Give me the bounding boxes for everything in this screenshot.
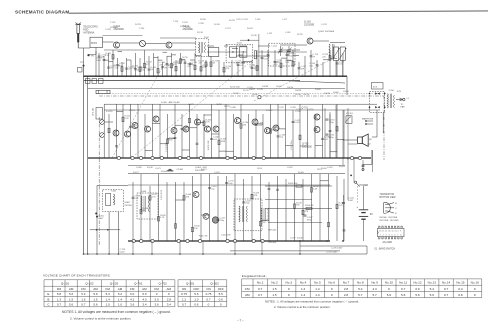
wire: segment y229.8 <box>90 229 120 231</box>
svg-text:4.7K: 4.7K <box>339 205 344 207</box>
junction dot on rail 3 <box>342 240 344 242</box>
svg-text:SCHEMATIC DIAGRAM: SCHEMATIC DIAGRAM <box>15 10 69 15</box>
svg-text:BOTTOM VIEW: BOTTOM VIEW <box>380 197 397 199</box>
telescopic rod antenna <box>75 23 81 48</box>
transistor IF/AF stage (237.5,120.5) <box>235 118 241 124</box>
svg-text:5.8: 5.8 <box>57 292 62 296</box>
svg-text:C-671: C-671 <box>155 168 162 170</box>
svg-text:3.6: 3.6 <box>130 303 135 307</box>
svg-text:SUB.T: SUB.T <box>125 202 132 204</box>
speaker feed wires <box>343 139 358 141</box>
via x=152.5 rail y158 <box>151 156 154 159</box>
wire: vertical rail x87.7 <box>87 76 89 254</box>
core line2 L-103 <box>333 44 335 58</box>
svg-text:1.4: 1.4 <box>118 297 123 301</box>
T-102 core2 <box>201 42 203 53</box>
capacitor <box>326 119 329 120</box>
wire contact to right <box>362 164 372 166</box>
svg-text:R-121: R-121 <box>110 27 117 29</box>
svg-text:0.0128: 0.0128 <box>106 111 113 113</box>
scattered tiny component value labels <box>105 19 350 174</box>
svg-text:10017: 10017 <box>276 86 283 88</box>
T-704 core 1 <box>389 94 391 108</box>
svg-text:R-746: R-746 <box>214 24 221 26</box>
via x=133.7 rail y241 <box>132 239 135 242</box>
T-603 primary <box>261 208 262 221</box>
svg-text:No.7: No.7 <box>343 281 350 285</box>
capacitor C-724 <box>342 203 345 204</box>
svg-text:T-102: T-102 <box>204 37 210 39</box>
svg-text:10060: 10060 <box>333 92 340 94</box>
via x=235 rail y158 <box>233 156 236 159</box>
trimmer capacitor 1 <box>278 46 283 56</box>
svg-text:2SC900 : 2SC535B: 2SC900 : 2SC535B <box>379 217 398 219</box>
wire: audio rail y173.6 <box>128 173 345 175</box>
svg-text:FM: FM <box>245 287 250 291</box>
junction dot on rail <box>299 240 301 242</box>
wire T-701 to speaker <box>376 110 378 137</box>
middle band verticals with components <box>108 104 344 158</box>
svg-text:R-710: R-710 <box>243 90 250 92</box>
svg-text:10K27: 10K27 <box>249 89 256 91</box>
svg-text:5.6: 5.6 <box>69 303 74 307</box>
svg-text:TELESCOPIC: TELESCOPIC <box>83 26 98 28</box>
wire: main supply bus y76 <box>84 75 347 77</box>
svg-text:C-298: C-298 <box>290 107 297 109</box>
ferrite bar antenna <box>96 90 110 93</box>
svg-text:R-138: R-138 <box>197 32 204 34</box>
coil winding in L-601 <box>106 193 111 205</box>
T-601 primary <box>141 196 142 212</box>
T-704 core 2 <box>391 94 393 108</box>
svg-text:1.0: 1.0 <box>194 297 199 301</box>
transistor IF/AF stage (276,128) <box>273 125 279 131</box>
wire: lowest horizontal y254 <box>84 253 368 255</box>
transistor Q101 2SC900D <box>114 42 120 48</box>
svg-text:T-704: T-704 <box>388 90 394 92</box>
wire: vertical x97 down <box>96 185 98 254</box>
svg-text:5.7: 5.7 <box>358 293 363 297</box>
svg-text:100P: 100P <box>96 60 101 62</box>
junction <box>96 229 98 231</box>
svg-text:POWER: POWER <box>360 185 369 187</box>
svg-text:CRT-602: CRT-602 <box>268 230 277 232</box>
svg-text:R-718: R-718 <box>180 26 187 28</box>
capacitor <box>304 215 307 216</box>
svg-text:R-183: R-183 <box>247 28 254 30</box>
svg-text:100K: 100K <box>221 141 226 143</box>
wire vertical x258.9 <box>258 34 260 76</box>
svg-text:0.7: 0.7 <box>258 293 263 297</box>
svg-text:Q-701: Q-701 <box>134 282 143 286</box>
svg-text:AM: AM <box>118 287 123 291</box>
svg-text:8Ω: 8Ω <box>368 144 371 146</box>
T-603 core2 <box>264 208 266 221</box>
table: IC voltages No.1-16 <box>242 279 482 298</box>
transistor IF/AF stage (135,125.5) <box>132 123 138 129</box>
svg-text:2SC900: 2SC900 <box>125 205 133 207</box>
transistor IF/AF stage (267.5,130.5) <box>265 128 271 134</box>
svg-text:VR-701: VR-701 <box>346 113 354 115</box>
svg-text:– 7 –: – 7 – <box>237 319 244 323</box>
junction <box>95 213 97 215</box>
junction dots on dashed enclosure <box>369 93 371 95</box>
svg-text:47µ69: 47µ69 <box>298 172 305 174</box>
svg-text:10K70: 10K70 <box>303 94 310 96</box>
svg-text:0: 0 <box>474 287 476 291</box>
svg-text:47µ93: 47µ93 <box>339 166 346 168</box>
svg-text:2.2K: 2.2K <box>105 55 110 57</box>
diode pair lower <box>375 106 380 108</box>
svg-text:5.6: 5.6 <box>387 293 392 297</box>
svg-text:C-725 0.047: C-725 0.047 <box>331 247 343 249</box>
wire: long feed line y88.3 <box>88 87 345 89</box>
svg-text:C-637: C-637 <box>287 167 294 169</box>
svg-text:No.9: No.9 <box>371 281 378 285</box>
svg-text:Q-301: Q-301 <box>186 282 195 286</box>
via x=227.5 rail y241 <box>226 239 229 242</box>
driver transformer T-602 dashed box <box>234 199 262 231</box>
T-602 primary winding <box>239 206 240 222</box>
svg-text:5.6: 5.6 <box>69 292 74 296</box>
dial cord dashed diagonal 1 <box>135 64 248 155</box>
battery B-1 two cells 3V <box>359 210 368 219</box>
junction dots on main bus <box>83 76 343 77</box>
svg-text:L-600: L-600 <box>141 191 147 193</box>
transistor IF/AF stage (186,129) <box>183 126 189 132</box>
transistor Q701 driver <box>314 114 320 120</box>
svg-text:No.2: No.2 <box>271 281 278 285</box>
transistor IF/AF stage (174,130.5) <box>171 128 177 134</box>
svg-text:1.4: 1.4 <box>315 293 320 297</box>
switch mechanical dash link <box>357 186 359 204</box>
svg-text:5.4: 5.4 <box>430 287 435 291</box>
svg-text:4.0: 4.0 <box>142 297 147 301</box>
wire y185.4 left segment <box>97 184 128 186</box>
svg-text:1.4: 1.4 <box>106 297 111 301</box>
svg-text:AN-214B: AN-214B <box>383 241 393 244</box>
svg-text:0.047: 0.047 <box>348 200 354 202</box>
svg-text:EAR: EAR <box>401 106 406 109</box>
svg-text:Q-702: Q-702 <box>159 282 168 286</box>
via x=201 rail y158 <box>199 156 202 159</box>
wire cap C-724 bottom <box>343 204 345 241</box>
wire: vertical x118.4 down <box>117 212 119 254</box>
svg-text:C-612 10P: C-612 10P <box>221 235 231 237</box>
wire ladder y222.5 <box>268 222 322 224</box>
svg-text:4.7K: 4.7K <box>152 196 157 198</box>
wire down to bus <box>95 51 97 76</box>
transistor IF/AF stage (207.5,129) <box>205 126 211 132</box>
svg-text:0.75: 0.75 <box>181 292 187 296</box>
svg-text:0: 0 <box>331 293 333 297</box>
svg-text:1.5: 1.5 <box>272 293 277 297</box>
T-704 primary winding <box>387 94 388 108</box>
svg-text:VOLTAGE CHART OF EACH TRAN: VOLTAGE CHART OF EACH TRANSISTORS <box>43 273 110 277</box>
svg-text:FM: FM <box>81 287 86 291</box>
svg-text:No.13: No.13 <box>428 281 437 285</box>
transistor IF/AF stage (156,119) <box>153 116 159 122</box>
can 2 dot <box>243 51 244 52</box>
svg-text:0.9: 0.9 <box>415 287 420 291</box>
svg-text:T-178: T-178 <box>110 22 116 24</box>
wire antenna to BPF <box>78 47 90 49</box>
wire: vertical x109 down <box>108 212 110 254</box>
bar detail2 <box>106 90 108 93</box>
wire: secondary bus y80.5 <box>84 80 300 82</box>
svg-text:2SC900E: 2SC900E <box>304 24 315 27</box>
svg-text:B.P.F: B.P.F <box>91 42 97 45</box>
svg-text:No.11: No.11 <box>399 281 407 285</box>
svg-text:1K21: 1K21 <box>317 169 323 171</box>
svg-text:CP-301: CP-301 <box>177 169 185 171</box>
svg-text:6.0: 6.0 <box>142 292 147 296</box>
transistor IF/AF stage (116,133) <box>113 130 119 136</box>
svg-text:4.2: 4.2 <box>130 297 135 301</box>
svg-text:No.6: No.6 <box>328 281 335 285</box>
wire top right feed <box>330 42 345 44</box>
wire BPF out <box>95 48 97 55</box>
svg-text:2.2K: 2.2K <box>285 62 290 64</box>
svg-text:10K63: 10K63 <box>324 93 331 95</box>
via x=263.7 rail y158 <box>262 156 265 159</box>
svg-text:10039: 10039 <box>343 91 350 93</box>
transistor Q603 (dark) <box>212 217 218 223</box>
svg-text:100P: 100P <box>132 127 137 129</box>
svg-text:T-134: T-134 <box>139 28 145 30</box>
svg-text:L-177: L-177 <box>282 19 288 21</box>
svg-text:0.7: 0.7 <box>57 303 62 307</box>
capacitor <box>326 134 329 135</box>
slide switch contact upper <box>362 165 364 167</box>
svg-text:0.6: 0.6 <box>219 297 224 301</box>
svg-text:0.7: 0.7 <box>206 297 211 301</box>
svg-text:T-116: T-116 <box>173 21 179 23</box>
wire antenna branch down to TP2 <box>83 48 85 66</box>
via x=352 rail y158 <box>350 156 353 159</box>
diode pair upper <box>375 92 380 94</box>
T-603 core1 <box>263 208 265 221</box>
svg-text:FM: FM <box>154 287 159 291</box>
svg-text:4.7K: 4.7K <box>273 64 278 66</box>
svg-text:0.7: 0.7 <box>444 293 449 297</box>
power switch S-2 <box>355 181 360 187</box>
svg-text:0: 0 <box>331 287 333 291</box>
svg-text:5.3: 5.3 <box>81 292 86 296</box>
svg-text:0: 0 <box>474 293 476 297</box>
coil L-101 (circle) <box>140 41 146 47</box>
via x=262.5 rail y241 <box>261 239 264 242</box>
svg-text:2SC535B : 2SC536D: 2SC535B : 2SC536D <box>379 220 399 222</box>
wire: lower horizontal y250.9 <box>230 250 340 252</box>
svg-text:0.7: 0.7 <box>182 303 187 307</box>
IF shield dashed box with two cans T-103/T-104 <box>226 44 252 62</box>
variable resistor VR-502 boxed with arrow <box>340 47 345 61</box>
via x=141 rail y158 <box>139 156 142 159</box>
svg-text:10K88: 10K88 <box>295 90 302 92</box>
svg-text:C-199: C-199 <box>182 22 189 24</box>
junction dot above shield <box>248 39 250 41</box>
svg-text:AM: AM <box>167 287 172 291</box>
svg-text:ON: ON <box>182 287 187 291</box>
wire: y83 branch to right <box>282 81 345 83</box>
svg-text:Q-501: Q-501 <box>318 31 325 33</box>
svg-text:2. Volume control is at the mi: 2. Volume control is at the minimum posi… <box>274 305 331 309</box>
wire to power switch <box>353 158 355 183</box>
svg-text:0.047: 0.047 <box>289 55 295 57</box>
T-601 core2 <box>144 196 146 212</box>
IF can 1 <box>229 47 236 57</box>
svg-text:0: 0 <box>388 287 390 291</box>
svg-text:4.7K: 4.7K <box>206 122 211 124</box>
svg-text:5.2: 5.2 <box>118 292 123 296</box>
svg-text:0.7: 0.7 <box>258 287 263 291</box>
wire y40.2 <box>240 39 259 41</box>
svg-text:CP1-101: CP1-101 <box>93 107 95 116</box>
svg-text:0.4: 0.4 <box>458 287 463 291</box>
coil <box>329 44 330 58</box>
via x=118.8 rail y158 <box>117 156 120 159</box>
wire cap C-724 top <box>343 195 345 203</box>
transistor Q702 driver <box>314 127 320 133</box>
svg-text:12345678: 12345678 <box>380 235 404 237</box>
resistor R-606 horizontal <box>306 207 312 209</box>
svg-text:OFF: OFF <box>218 287 224 291</box>
component box left of rail <box>78 68 83 73</box>
via x=141.2 rail y241 <box>140 239 143 242</box>
svg-text:C-140 800: C-140 800 <box>166 142 168 152</box>
IF transformer T-102 dashed shield <box>196 39 209 57</box>
drop wires from rail y241 to y254 <box>133 241 300 254</box>
wire ladder y186 <box>265 185 332 187</box>
svg-text:5.7: 5.7 <box>372 293 377 297</box>
svg-text:10K71: 10K71 <box>129 110 136 112</box>
test point TP1 <box>87 54 89 56</box>
svg-text:1.5: 1.5 <box>69 297 74 301</box>
wire switch to battery <box>363 186 365 210</box>
svg-text:5.9: 5.9 <box>93 292 98 296</box>
svg-text:R-182: R-182 <box>185 27 192 29</box>
svg-text:10030: 10030 <box>252 94 259 96</box>
svg-text:ANTENNA: ANTENNA <box>83 31 95 34</box>
svg-text:R-763: R-763 <box>135 24 142 26</box>
svg-text:R-605 43K: R-605 43K <box>288 183 298 185</box>
svg-text:3V: 3V <box>370 213 373 216</box>
svg-text:R-671: R-671 <box>201 169 208 171</box>
svg-text:C-743: C-743 <box>257 89 264 91</box>
wire battery to rail <box>363 219 365 241</box>
svg-text:OFF: OFF <box>193 287 199 291</box>
svg-text:FM: FM <box>57 287 62 291</box>
via on boundary y97 <box>258 96 261 99</box>
transistor IF/AF stage (255,122) <box>252 119 258 125</box>
svg-text:2SC900E: 2SC900E <box>325 31 335 33</box>
wire ladder y208.5 <box>265 208 332 210</box>
svg-text:47µ35: 47µ35 <box>147 167 154 169</box>
wire: ground return y241 <box>128 240 330 242</box>
svg-text:0.0176: 0.0176 <box>307 109 314 111</box>
svg-text:5.6: 5.6 <box>93 303 98 307</box>
svg-text:2.2K: 2.2K <box>114 68 119 70</box>
svg-text:R-180: R-180 <box>200 19 207 21</box>
svg-text:10029: 10029 <box>233 93 240 95</box>
wire jog to TP1 <box>89 54 97 56</box>
svg-text:AM: AM <box>69 287 74 291</box>
svg-text:1.5: 1.5 <box>272 287 277 291</box>
svg-text:10020: 10020 <box>315 89 322 91</box>
svg-text:2.2K: 2.2K <box>125 118 130 120</box>
variable resistor VR-501 boxed with arrow <box>333 47 338 61</box>
svg-text:2.2K: 2.2K <box>313 188 318 190</box>
wire earphone section down <box>382 113 384 133</box>
svg-text:No.14: No.14 <box>442 281 451 285</box>
junction dots on y254 line <box>83 253 301 255</box>
svg-text:No.1: No.1 <box>257 281 264 285</box>
earphone jack switch contacts <box>365 120 373 125</box>
svg-text:5.6: 5.6 <box>430 293 435 297</box>
svg-text:2SC900E: 2SC900E <box>302 147 312 149</box>
via x=187.5 rail y241 <box>186 239 189 242</box>
svg-text:Q-702: Q-702 <box>302 144 309 146</box>
transistor IF/AF stage (216,129) <box>213 126 219 132</box>
component box 2 at bus left end <box>92 79 97 84</box>
svg-text:0.7: 0.7 <box>401 287 406 291</box>
svg-text:0: 0 <box>288 287 290 291</box>
svg-text:ROD: ROD <box>83 29 88 31</box>
svg-text:C-631: C-631 <box>214 172 221 174</box>
svg-text:1.4: 1.4 <box>301 293 306 297</box>
table: voltage chart Q-301/Q-302 <box>178 280 227 307</box>
svg-text:No.15: No.15 <box>456 281 465 285</box>
svg-text:1K56: 1K56 <box>257 168 263 170</box>
svg-text:3.4: 3.4 <box>142 303 147 307</box>
svg-text:10K26: 10K26 <box>287 87 294 89</box>
svg-text:R-617 1K: R-617 1K <box>199 236 208 238</box>
speaker SP-1 <box>358 134 369 146</box>
component box at bus left end <box>86 79 91 84</box>
wire: mid horizontal y110 <box>104 109 380 111</box>
svg-text:No.4: No.4 <box>300 281 307 285</box>
svg-text:1.0: 1.0 <box>118 303 123 307</box>
svg-text:C-288: C-288 <box>230 107 237 109</box>
can 1 dot <box>232 51 233 52</box>
transistor Q102 2SC900E <box>166 42 172 48</box>
svg-text:C-685: C-685 <box>136 167 143 169</box>
svg-text:2.8: 2.8 <box>344 287 349 291</box>
svg-text:R-230 10K: R-230 10K <box>208 140 210 150</box>
svg-text:ON: ON <box>206 287 211 291</box>
svg-text:10K88: 10K88 <box>262 86 269 88</box>
svg-text:0.75: 0.75 <box>206 292 212 296</box>
svg-text:Q-101: Q-101 <box>61 282 70 286</box>
svg-text:1.4: 1.4 <box>315 287 320 291</box>
svg-text:5.6: 5.6 <box>415 293 420 297</box>
svg-text:EARPHONE: EARPHONE <box>362 118 374 121</box>
dashed trimmer enclosure L-104 <box>269 43 296 66</box>
svg-text:C-794: C-794 <box>247 87 254 89</box>
svg-text:No.12: No.12 <box>413 281 422 285</box>
T-602 core2 <box>243 206 245 222</box>
transistor IF/AF stage (197.5,122) <box>195 119 201 125</box>
svg-text:R-799: R-799 <box>297 34 304 36</box>
junction2 <box>107 229 109 231</box>
svg-text:3.0: 3.0 <box>155 297 160 301</box>
via x=253.7 rail y158 <box>252 156 255 159</box>
transistor IF/AF stage (127.5,134) <box>125 131 131 137</box>
svg-text:B: B <box>47 297 49 301</box>
svg-text:R-768: R-768 <box>295 94 302 96</box>
transistor package bottom view <box>384 202 394 213</box>
